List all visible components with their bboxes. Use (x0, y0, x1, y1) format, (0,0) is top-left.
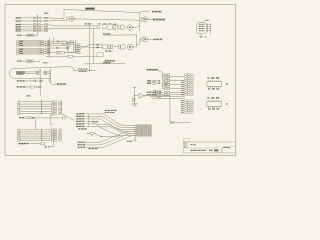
vertical bus wire V1 (49, 38, 51, 58)
net label lower chain2 underlined (105, 60, 116, 62)
wire RP2 row to chain2 lower input (80, 47, 103, 48)
wire to gate U7A (113, 46, 118, 48)
net label top of chain2 with wire (103, 33, 137, 44)
memory bus 1 line 6 (18, 113, 62, 115)
relay K1 right verticals with cross ticks (207, 23, 212, 35)
header J6 contact row 7 (181, 112, 193, 114)
wire RN1 to header (170, 76, 185, 78)
IC U10 reference designator (226, 83, 228, 85)
wire RN1 to header (170, 80, 185, 82)
component box right of U6 (97, 52, 103, 56)
header J5 contact row 10 (181, 92, 193, 94)
resistor network RN1 row 6 (163, 84, 170, 86)
memory bus 2 line 6 (18, 140, 62, 142)
signal label row 2 (76, 116, 85, 118)
address bus A vertical with arrow marker (37, 15, 39, 35)
wire U1 output to gate U4 input (75, 19, 141, 20)
title block left column dividers (183, 142, 219, 148)
reference label above connector rows (44, 13, 48, 14)
header J6 contact row 6 (181, 110, 193, 112)
title block left column entries (184, 143, 186, 148)
wire into U6A (46, 52, 57, 54)
title block revision box (184, 139, 190, 142)
long top wire to corner node (64, 9, 140, 12)
IC U10 DIP package (207, 80, 222, 88)
buffer U2A (97, 23, 101, 28)
fan wire 2 (89, 116, 137, 127)
signal label row 3 (76, 118, 85, 120)
jumper row W1 (147, 80, 160, 82)
wire tail left on lower net (84, 63, 94, 65)
counter U3 block (108, 23, 112, 29)
net label B-RES (152, 11, 162, 13)
relay K1 contact bars (199, 24, 205, 31)
wire row y48 with boxes (46, 47, 69, 49)
bus 1 bottom row label and boxes (19, 117, 66, 119)
resistor network RN1 row 7 (163, 86, 170, 88)
ribbon cable row 5 with terminal boxes (17, 50, 50, 52)
pin number marks chain2 (96, 44, 99, 48)
resistor network RN1 row 4 (163, 80, 170, 82)
driver wires to header (150, 96, 185, 99)
IC U10 pin number labels below (208, 88, 219, 89)
pullup vertical with supply bar (133, 87, 136, 104)
net label right of CPU underlined (51, 83, 67, 85)
junction vertical on memory bus 2 (41, 129, 42, 141)
header J6 contact row 3 (181, 104, 193, 106)
CPU row wires to termination boxes (24, 71, 40, 74)
wire chain1 output to corner (133, 24, 139, 27)
termination network row 3 (134, 129, 151, 131)
IC U11 reference designator (226, 103, 228, 105)
vertical wire down to lower-right run (170, 96, 191, 123)
small label right of Y2 (43, 62, 48, 63)
header J5 contact row 3 (185, 78, 193, 80)
crystal Y2 with label (17, 60, 40, 63)
IC U10 pin number labels above (207, 77, 219, 78)
memory bus 2 line 3 (18, 133, 62, 135)
fan wire 6 (89, 126, 137, 135)
ground below Q1 (132, 104, 138, 106)
memory bus 1 line 5 (18, 111, 62, 113)
title block outline (183, 142, 235, 153)
memory bus 1 line 1 (18, 101, 62, 103)
connector J1 pin row 4 with net label (16, 26, 48, 28)
label below termination grid (127, 141, 133, 142)
ground marks below termination grid (134, 140, 137, 141)
supply tick right (165, 83, 167, 85)
connector J1 pin row 5 with net label (16, 28, 48, 30)
bracket right of bus 1 (50, 115, 53, 124)
wire row2 to gate U1 (47, 19, 66, 22)
series component in fan (86, 132, 120, 136)
wire row y45.6 with box (46, 45, 71, 47)
wire row1 to gate U1 (47, 17, 64, 20)
lower fan label 1 with wire (78, 131, 129, 143)
vertical wire at U1 input rising to top net (63, 9, 65, 18)
oscillator U1 (circle symbol) (66, 17, 75, 22)
header J6 contact row 4 (181, 106, 193, 108)
net label above wire (85, 23, 93, 25)
connector J1 pin row 2 with net label (16, 20, 48, 22)
header J5 contact row 7 (181, 86, 193, 88)
label above fan right (78, 128, 87, 130)
memory bus 1 line 4 (18, 108, 62, 110)
crystal Y1 with label (17, 34, 38, 37)
ribbon cable row 1 with terminal boxes (17, 40, 50, 42)
bus 1 collector vertical and diagonal to labels (62, 101, 75, 120)
wire U4 output to label (149, 18, 153, 20)
CPU aux row 2 with label resistor and boxes (17, 86, 41, 88)
memory bus 1 line 3 (18, 106, 62, 108)
title block drawing number text (190, 150, 212, 151)
termination network row 4 (134, 131, 151, 133)
wire below bus 2 with polarity mark (48, 141, 54, 148)
lower fan label 4 (88, 148, 98, 149)
resistor network RN1 row 3 (163, 78, 170, 80)
memory bus 2 line 4 (18, 135, 62, 137)
capacitor C2 block (103, 45, 107, 49)
resistor pack RP3 (108, 45, 112, 49)
wire bus rows to divider chain lower (47, 28, 97, 30)
bracket vertical for signal labels (86, 114, 89, 127)
resistor network RN1 row 5 (163, 82, 170, 84)
wire chain2 output stepping up to gate U7C (134, 40, 141, 48)
fan wire 4 (89, 121, 137, 131)
termination network row 2 (134, 127, 151, 128)
header J5 contact row 5 (181, 82, 193, 84)
bus 2 bottom row label and series box (19, 143, 47, 148)
header J6 contact row 1 (181, 100, 193, 102)
vertical bus wire V3 (74, 40, 76, 52)
gate U6A lower (57, 51, 60, 54)
jumper row W2 (147, 83, 160, 85)
header J5 contact row 6 (181, 84, 193, 86)
resistor network RN1 row 1 (163, 74, 170, 76)
capacitor C1 block (103, 23, 107, 28)
memory bus 2 line 2 (18, 131, 62, 133)
wire buffer output long (145, 95, 170, 97)
header J6 contact row 5 (181, 108, 193, 110)
fan wire 1 (89, 114, 137, 126)
lower label row 2 with pair (147, 94, 185, 96)
inverter U2B (119, 25, 125, 30)
connector J1 pin row 3 with net label (16, 24, 48, 26)
relay K1 top pin stubs (200, 20, 209, 23)
ground below relay K1 (199, 33, 203, 37)
IC U11 DIP package (207, 100, 222, 108)
net label at U7C output (154, 39, 164, 41)
title block scale text (223, 147, 230, 148)
diagonal wire RP2 to chain2 upper input (80, 45, 103, 49)
ribbon cable row 6 with terminal boxes (17, 52, 50, 54)
ribbon cable row 3 with terminal boxes (17, 44, 50, 46)
IC U5 vertical DIP (67, 42, 75, 52)
junction vertical on memory bus 1 (41, 99, 42, 114)
termination boxes right of data bus (44, 71, 51, 74)
ribbon cable row 2 with terminal boxes (17, 42, 50, 44)
IC U11 pin number labels below (208, 108, 219, 109)
wire bus rows to divider chain upper (47, 25, 97, 26)
signal text pair mid (105, 110, 118, 114)
looped wire around CPU block (10, 67, 96, 79)
lower fan label 2 with wire (78, 133, 131, 145)
net label CLK on top wire (85, 8, 94, 10)
resistor network RN1 row 2 (163, 76, 170, 78)
junction dot in fan (100, 136, 101, 137)
diagonal tick mark (91, 134, 93, 136)
fan wire 5 (89, 124, 137, 133)
resistor pack RP1 (113, 24, 117, 30)
termination network row 6 (134, 135, 151, 137)
gate U6B lower (61, 51, 64, 54)
vertical wire with pin stubs (49, 69, 51, 84)
wire junction to buffer (135, 95, 139, 97)
transistor Q1 marks (132, 98, 135, 101)
net label on lower wire (103, 62, 111, 64)
header J5 contact row 9 (181, 90, 193, 92)
gate U4 with bubble (141, 17, 149, 22)
inverter U7A (119, 45, 126, 50)
vertical tie wire in termination grid (134, 127, 136, 140)
header J5 contact row 4 (181, 80, 193, 82)
CPU U8 name text block (16, 71, 25, 74)
wire RN1 to header (170, 88, 185, 90)
vertical wire linking bus blocks (35, 119, 37, 130)
header J5 contact row 1 (185, 74, 193, 76)
title block right cell (222, 146, 236, 153)
resistor network RN1 row 8 (163, 88, 170, 90)
drawing border frame (5, 4, 236, 155)
ribbon cable row 4 with terminal boxes (17, 48, 50, 50)
header J6 contact row 2 (181, 102, 193, 104)
wire lower row y56.6 with component (46, 55, 97, 58)
resistor pack RP2 column (76, 44, 80, 54)
header J5 contact row 11 (181, 94, 193, 96)
signal label row 6 (76, 126, 85, 128)
vertical wire to lower net label (94, 29, 126, 64)
signal label row 5 (76, 123, 85, 125)
IC U11 pin number labels above (207, 97, 219, 98)
wire U7C output to label (149, 38, 154, 40)
memory bus 2 line 5 (18, 137, 62, 139)
relay K1 rounded outline (196, 23, 206, 33)
junction dot on loop (89, 70, 90, 71)
designator label under gate U7 (105, 50, 113, 51)
wire U6B to RP2 (65, 52, 76, 54)
power dot label above bus 1 (26, 95, 30, 97)
series box on lower-right run (171, 121, 174, 123)
CPU aux row 1 with label and boxes (17, 80, 43, 82)
memory bus 1 line 2 (18, 103, 62, 105)
inverter U7B (127, 44, 133, 49)
wire RN1 to header (170, 84, 185, 86)
branch wire to net label B-RES (140, 11, 149, 12)
fan wire 3 (89, 119, 137, 129)
termination network row 1 (134, 125, 151, 127)
memory bus 2 line 1 (18, 129, 62, 131)
tick marks under driver pair (153, 95, 155, 96)
net label on fan wire (92, 121, 99, 122)
lower fan label 3 with wire (78, 135, 133, 148)
connector J1 pin row 1 with net label (16, 17, 48, 19)
wire corner down to gate chain (139, 13, 141, 31)
vertical bus wire V2 (53, 37, 55, 44)
tick pin relay K1 (205, 35, 207, 37)
signal label row 4 (76, 121, 85, 123)
net label SYS-CLK underlined (153, 19, 166, 21)
title block company text (190, 144, 196, 145)
vertical wire to loop junction (89, 26, 91, 71)
connector J1 pin row 6 with net label (16, 30, 48, 32)
lower label row 1 with pair (147, 92, 185, 94)
component pair above driver (153, 90, 161, 94)
termination network row 5 (134, 133, 151, 135)
buffer U9 triangle (139, 93, 145, 98)
header J5 contact row 8 (181, 88, 193, 90)
data bus vertical with arrow marker (39, 69, 41, 96)
title block sheet box dark (214, 149, 218, 151)
vertical junction wire right of ribbons (44, 40, 46, 54)
gate U7C (141, 37, 149, 42)
wire row y41.5 with gates (50, 41, 73, 45)
inverter U2C (127, 25, 133, 30)
junction dot at driver input (134, 95, 135, 96)
no-connect note text (78, 68, 89, 72)
signal label row 1 (76, 113, 85, 115)
net label with underline feeding stack (147, 69, 163, 89)
header J5 contact row 2 (185, 76, 193, 78)
wire row y43.5 with box (50, 43, 74, 45)
